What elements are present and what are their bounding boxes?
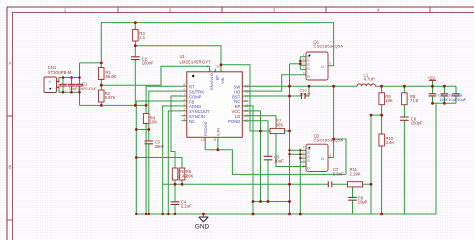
- svg-text:71.5: 71.5: [410, 98, 419, 103]
- svg-text:15: 15: [245, 104, 249, 108]
- svg-text:XT30UPB-M: XT30UPB-M: [48, 70, 72, 75]
- svg-text:4.7uH: 4.7uH: [364, 77, 375, 82]
- svg-text:U1: U1: [180, 54, 186, 59]
- svg-text:10uF: 10uF: [274, 159, 284, 164]
- svg-text:16: 16: [245, 99, 249, 103]
- svg-text:PGND: PGND: [228, 119, 240, 124]
- svg-text:G: G: [307, 167, 310, 171]
- svg-text:5.6nF: 5.6nF: [333, 171, 344, 176]
- svg-text:D: D: [321, 65, 324, 69]
- svg-text:150pF: 150pF: [411, 121, 423, 126]
- svg-text:19: 19: [245, 84, 249, 88]
- svg-text:ILIM: ILIM: [217, 128, 221, 135]
- svg-text:EN/UVLO: EN/UVLO: [210, 73, 214, 90]
- svg-text:2.1: 2.1: [139, 35, 145, 40]
- svg-text:12: 12: [245, 119, 249, 123]
- svg-text:NC: NC: [189, 119, 195, 124]
- svg-text:86.6K: 86.6K: [105, 74, 116, 79]
- svg-text:865: 865: [276, 123, 284, 128]
- svg-text:PGOOD: PGOOD: [204, 121, 208, 135]
- svg-text:10uF10uF10uF: 10uF10uF10uF: [440, 97, 467, 102]
- svg-text:2.19K: 2.19K: [350, 171, 361, 176]
- svg-text:100nF: 100nF: [300, 91, 312, 96]
- svg-text:10: 10: [201, 138, 205, 142]
- svg-text:18K: 18K: [385, 98, 393, 103]
- svg-text:GND: GND: [195, 224, 210, 231]
- svg-text:+5V: +5V: [428, 75, 436, 80]
- svg-text:10K: 10K: [150, 119, 158, 124]
- svg-text:3.4K: 3.4K: [386, 140, 395, 145]
- svg-text:10uF10uF0.47uF: 10uF10uF0.47uF: [69, 87, 97, 91]
- svg-text:20K: 20K: [186, 174, 194, 179]
- svg-text:2: 2: [169, 7, 172, 12]
- svg-text:1: 1: [57, 84, 59, 88]
- svg-text:11: 11: [213, 138, 217, 142]
- svg-text:CSD18534Q5A: CSD18534Q5A: [314, 43, 344, 48]
- svg-text:100nF: 100nF: [142, 61, 154, 66]
- svg-text:1: 1: [64, 7, 67, 12]
- svg-text:EP: EP: [215, 75, 219, 81]
- svg-text:CSD18534Q5A: CSD18534Q5A: [314, 138, 344, 143]
- svg-text:3: 3: [273, 7, 276, 12]
- svg-text:14: 14: [245, 109, 249, 113]
- svg-text:17: 17: [245, 94, 249, 98]
- svg-text:8.87K: 8.87K: [105, 95, 116, 100]
- svg-text:D: D: [321, 157, 324, 161]
- svg-text:4: 4: [377, 7, 380, 12]
- svg-text:+: +: [49, 80, 52, 85]
- svg-text:39nF: 39nF: [155, 144, 165, 149]
- svg-text:2: 2: [57, 78, 59, 82]
- svg-text:B: B: [8, 165, 11, 170]
- svg-text:VIN: VIN: [221, 77, 225, 84]
- svg-text:10pF: 10pF: [358, 200, 368, 205]
- svg-text:G: G: [307, 75, 310, 79]
- svg-text:C1: C1: [82, 81, 88, 86]
- svg-text:13: 13: [245, 114, 249, 118]
- svg-text:18: 18: [245, 89, 249, 93]
- svg-text:2.2uF: 2.2uF: [181, 204, 192, 209]
- svg-text:20: 20: [216, 64, 220, 68]
